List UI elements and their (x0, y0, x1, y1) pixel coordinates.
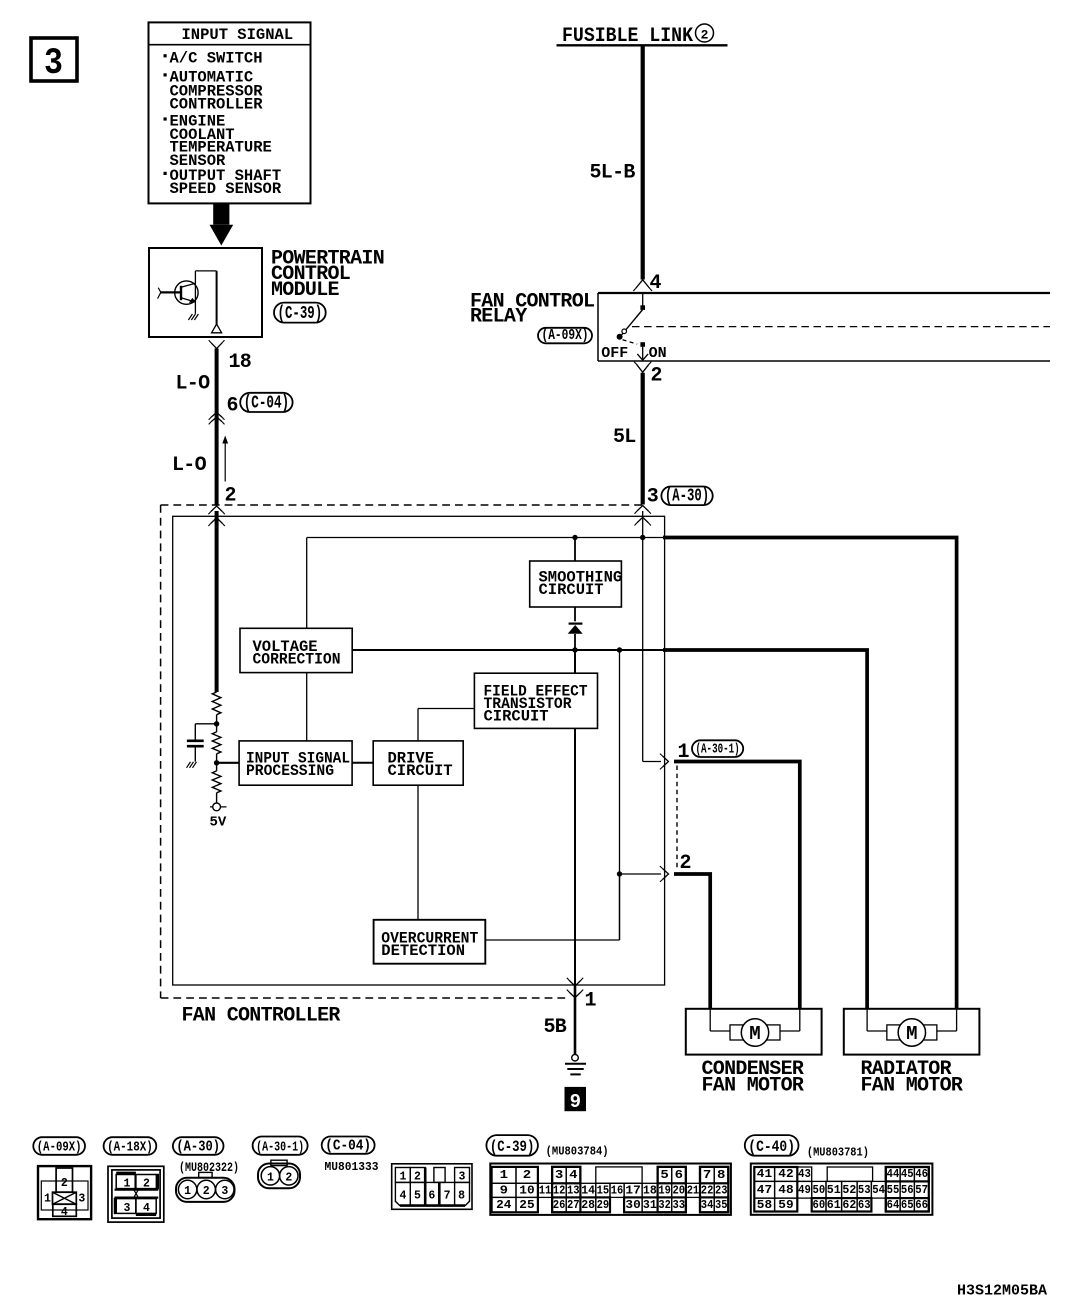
svg-text:4: 4 (399, 1190, 406, 1203)
ground G9 (565, 1054, 586, 1074)
svg-text:(A-30-1): (A-30-1) (696, 742, 740, 758)
svg-text:2: 2 (61, 1177, 68, 1190)
connector A-30-1 face view (253, 1137, 308, 1189)
ground for capacitor (187, 762, 197, 768)
overcurrent detection block (374, 920, 486, 964)
svg-text:INPUT SIGNAL: INPUT SIGNAL (182, 26, 294, 44)
svg-text:45: 45 (901, 1168, 914, 1181)
svg-text:(A-09X): (A-09X) (37, 1139, 82, 1155)
node junction on supply bus (640, 535, 645, 540)
wire L-O from PCM pin 18 (215, 349, 219, 505)
svg-text:55: 55 (887, 1184, 900, 1197)
fan controller dashed enclosure (161, 505, 643, 998)
svg-text:41: 41 (757, 1168, 772, 1181)
svg-text:(C-39): (C-39) (490, 1138, 535, 1156)
svg-text:5V: 5V (210, 815, 227, 831)
fusible link 2 supply (557, 24, 728, 48)
svg-text:5: 5 (660, 1169, 669, 1182)
svg-text:63: 63 (858, 1199, 871, 1212)
svg-text:(A-30): (A-30) (665, 487, 709, 507)
svg-text:58: 58 (757, 1199, 772, 1212)
wire from pin 2 to resistor ladder (215, 511, 219, 692)
fan controller inner box (173, 516, 665, 985)
connector C-04 face view (322, 1137, 472, 1210)
svg-text:35: 35 (715, 1199, 728, 1212)
svg-text:(C-40): (C-40) (748, 1138, 795, 1156)
thick wire pin2 to condenser fan motor left (674, 874, 710, 1009)
svg-text:(MU803784): (MU803784) (546, 1144, 609, 1158)
svg-text:2: 2 (414, 1171, 421, 1184)
svg-text:1: 1 (500, 1169, 509, 1182)
wire bus to FET circuit (574, 650, 576, 673)
thick wire FET bus to radiator fan motor left (663, 650, 867, 1009)
svg-text:OFF: OFF (601, 345, 628, 362)
relay OFF ON labels (601, 345, 666, 362)
svg-text:4: 4 (61, 1206, 68, 1219)
svg-text:3: 3 (647, 486, 658, 509)
svg-text:57: 57 (915, 1184, 928, 1197)
svg-text:1: 1 (123, 1178, 130, 1191)
svg-text:4: 4 (569, 1169, 578, 1182)
svg-text:51: 51 (827, 1184, 841, 1197)
page number 3 box (31, 38, 77, 85)
connector C-40 face view (745, 1135, 933, 1215)
svg-text:3: 3 (221, 1185, 228, 1198)
svg-text:L-O: L-O (176, 373, 211, 396)
svg-text:3: 3 (555, 1169, 564, 1182)
svg-text:M: M (906, 1023, 917, 1045)
svg-text:2: 2 (701, 27, 709, 42)
wire label 5L (613, 426, 636, 449)
svg-text:60: 60 (813, 1199, 826, 1212)
svg-text:CIRCUIT: CIRCUIT (539, 581, 604, 599)
wire label L-O lower (172, 454, 207, 477)
fan controller label (182, 1005, 341, 1028)
svg-text:FAN MOTOR: FAN MOTOR (861, 1074, 963, 1097)
pin 3 with connector A-30 (647, 486, 713, 509)
svg-text:(C-39): (C-39) (278, 304, 323, 324)
connector label A-09X (538, 327, 592, 344)
input signal processing block (239, 741, 352, 785)
svg-text:5L: 5L (613, 426, 636, 449)
connector label C-04 (240, 393, 292, 414)
svg-text:(A-30-1): (A-30-1) (256, 1139, 304, 1155)
wire FET output to pin 1 (574, 728, 576, 985)
connector label A-30-1 (692, 740, 743, 757)
svg-text:11: 11 (539, 1184, 552, 1197)
transistor Q1 in PCM (158, 271, 217, 320)
svg-text:22: 22 (701, 1184, 714, 1197)
svg-text:PROCESSING: PROCESSING (246, 762, 334, 780)
svg-text:L-O: L-O (172, 454, 207, 477)
node junction pin 2 branch (617, 871, 622, 876)
svg-text:13: 13 (567, 1184, 580, 1197)
svg-text:49: 49 (798, 1184, 811, 1197)
pin 4 of fan control relay (633, 272, 661, 295)
ground reference number 9 (565, 1087, 587, 1113)
svg-text:1: 1 (267, 1171, 274, 1184)
svg-text:16: 16 (611, 1184, 624, 1197)
internal bus to voltage correction (307, 538, 665, 629)
wire (216, 793, 218, 803)
svg-text:2: 2 (680, 852, 691, 875)
svg-text:(C-04): (C-04) (325, 1137, 371, 1154)
svg-text:CIRCUIT: CIRCUIT (388, 762, 453, 780)
svg-text:FAN CONTROLLER: FAN CONTROLLER (182, 1005, 341, 1028)
svg-text:4: 4 (143, 1202, 150, 1215)
svg-text:66: 66 (915, 1199, 928, 1212)
svg-text:24: 24 (496, 1199, 511, 1212)
wire voltage correction to input processing (306, 673, 308, 741)
wire drive circuit to overcurrent detection (417, 785, 419, 920)
radiator fan motor (844, 1009, 980, 1098)
svg-text:34: 34 (701, 1199, 714, 1212)
svg-text:6: 6 (428, 1190, 435, 1203)
svg-text:2: 2 (651, 365, 662, 388)
svg-text:M: M (749, 1023, 760, 1045)
node junction overcurrent branch (617, 647, 622, 652)
svg-text:8: 8 (458, 1190, 465, 1203)
thick wire pin1 to condenser fan motor right (674, 762, 800, 1009)
wire label 5L-B (590, 162, 636, 185)
svg-text:21: 21 (687, 1184, 700, 1197)
connector C-39 face view (486, 1135, 731, 1215)
svg-text:33: 33 (673, 1199, 686, 1212)
wire 5L from relay to fan controller (641, 373, 645, 505)
wire smoothing to diode (574, 607, 576, 621)
svg-text:32: 32 (658, 1199, 671, 1212)
wire (216, 754, 218, 771)
svg-text:46: 46 (915, 1168, 928, 1181)
field effect transistor circuit block (474, 673, 597, 728)
current direction arrow (222, 436, 228, 482)
svg-text:19: 19 (658, 1184, 671, 1197)
svg-text:ON: ON (649, 345, 667, 362)
svg-text:52: 52 (842, 1184, 856, 1197)
wire tap to input signal processing (217, 762, 240, 764)
svg-text:SPEED SENSOR: SPEED SENSOR (170, 180, 282, 198)
svg-text:9: 9 (570, 1091, 581, 1113)
node junction smoothing branch (572, 535, 577, 540)
connector C-04 pin 6 in-line crossing (209, 395, 238, 425)
powertrain control module (149, 247, 384, 337)
wire drive circuit to FET circuit (418, 709, 474, 741)
svg-text:8: 8 (717, 1169, 726, 1182)
svg-text:2: 2 (523, 1169, 532, 1182)
svg-text:47: 47 (757, 1184, 772, 1197)
svg-text:3: 3 (459, 1171, 466, 1184)
smoothing circuit block (530, 561, 623, 607)
svg-text:1: 1 (585, 990, 597, 1013)
svg-text:1: 1 (184, 1185, 191, 1198)
svg-text:6: 6 (675, 1169, 684, 1182)
svg-text:3: 3 (123, 1202, 130, 1215)
svg-text:7: 7 (444, 1190, 451, 1203)
svg-text:5L-B: 5L-B (590, 162, 636, 185)
node junction signal tap (214, 760, 219, 765)
svg-text:53: 53 (858, 1184, 871, 1197)
svg-text:(C-04): (C-04) (244, 394, 289, 414)
svg-text:20: 20 (673, 1184, 686, 1197)
resistor R3 (212, 771, 221, 793)
svg-text:1: 1 (399, 1171, 406, 1184)
capacitor C1 (187, 724, 217, 762)
svg-text:48: 48 (778, 1184, 793, 1197)
svg-text:54: 54 (872, 1184, 885, 1197)
svg-text:26: 26 (553, 1199, 566, 1212)
svg-text:5: 5 (414, 1190, 421, 1203)
wire diode to FET bus (574, 634, 576, 650)
svg-text:2: 2 (225, 485, 236, 508)
svg-text:H3S12M05BA: H3S12M05BA (957, 1283, 1047, 1300)
svg-text:6: 6 (227, 395, 238, 418)
relay switch contacts and blade (617, 293, 649, 360)
5V supply terminal (210, 803, 227, 831)
fan control relay A-09X box (470, 290, 1050, 361)
pin 18 of PCM (209, 340, 251, 374)
node junction diode to bus (572, 647, 577, 652)
wire input processing to drive circuit (352, 762, 373, 764)
svg-text:5B: 5B (544, 1016, 567, 1039)
svg-text:MODULE: MODULE (271, 279, 340, 302)
input signal list box (149, 22, 311, 203)
pin 1 controller output crossings (567, 978, 597, 1013)
svg-text:10: 10 (519, 1184, 534, 1197)
wire overcurrent detection to sense node (485, 874, 619, 940)
svg-text:27: 27 (567, 1199, 580, 1212)
svg-text:15: 15 (597, 1184, 610, 1197)
svg-text:30: 30 (625, 1199, 640, 1212)
svg-text:3: 3 (44, 43, 63, 85)
svg-text:17: 17 (625, 1184, 640, 1197)
thick wire supply bus to radiator fan motor right (663, 538, 957, 1009)
svg-text:CORRECTION: CORRECTION (253, 650, 341, 668)
condenser fan motor (686, 1009, 822, 1098)
wire (216, 715, 218, 732)
svg-text:2: 2 (285, 1171, 292, 1184)
svg-text:62: 62 (842, 1199, 856, 1212)
svg-text:61: 61 (827, 1199, 841, 1212)
block arrow from input signal to PCM (210, 203, 234, 245)
svg-text:(A-09X): (A-09X) (542, 327, 589, 344)
wire branch to pin 2 node (619, 650, 621, 940)
svg-text:(A-18X): (A-18X) (107, 1139, 153, 1155)
svg-text:59: 59 (778, 1199, 793, 1212)
pin 1 with connector A-30-1 (643, 741, 690, 769)
svg-text:4: 4 (650, 272, 662, 295)
internal supply wire from pin 3 (642, 511, 644, 762)
resistor R1 (212, 692, 221, 715)
bus from voltage correction to FET output node (352, 649, 664, 651)
svg-text:CIRCUIT: CIRCUIT (484, 707, 549, 725)
svg-text:28: 28 (581, 1199, 595, 1212)
document number (957, 1283, 1047, 1300)
svg-text:2: 2 (203, 1185, 210, 1198)
svg-text:1: 1 (44, 1193, 51, 1206)
svg-text:50: 50 (813, 1184, 826, 1197)
svg-text:25: 25 (519, 1199, 534, 1212)
diode D1 (568, 624, 583, 634)
voltage correction block (240, 628, 352, 672)
svg-text:18: 18 (229, 351, 252, 374)
svg-text:64: 64 (887, 1199, 900, 1212)
wire to smoothing circuit (574, 538, 576, 562)
svg-text:(A-30): (A-30) (176, 1138, 220, 1155)
wire label L-O upper (176, 373, 211, 396)
wire 5B to ground (574, 985, 577, 1055)
connector A-18X face view (104, 1137, 164, 1222)
svg-text:MU801333: MU801333 (325, 1160, 379, 1174)
svg-text:65: 65 (901, 1199, 914, 1212)
pin 2 of fan control relay (634, 362, 662, 388)
connector A-09X face view (33, 1137, 91, 1219)
svg-text:3: 3 (78, 1193, 85, 1206)
pin 2 of A-30-1 (620, 852, 691, 882)
wire 5L-B from fusible link (641, 47, 645, 280)
svg-text:2: 2 (143, 1178, 150, 1191)
svg-text:(MU803781): (MU803781) (807, 1145, 869, 1159)
svg-text:18: 18 (643, 1184, 657, 1197)
svg-text:31: 31 (643, 1199, 657, 1212)
svg-text:44: 44 (887, 1168, 900, 1181)
boundary crossing chevrons on supply wire (635, 506, 651, 526)
svg-text:CONTROLLER: CONTROLLER (170, 96, 264, 114)
connector A-30 face view (173, 1137, 239, 1202)
node junction capacitor tap (214, 721, 219, 726)
boundary crossing chevrons on left wire (208, 506, 224, 526)
svg-text:23: 23 (715, 1184, 728, 1197)
svg-text:A/C SWITCH: A/C SWITCH (170, 50, 263, 68)
PCM output line and terminal triangle (212, 271, 222, 333)
svg-text:42: 42 (778, 1168, 793, 1181)
pin 2 of fan controller (225, 485, 236, 508)
svg-text:FAN MOTOR: FAN MOTOR (702, 1074, 804, 1097)
connector label C-39 (274, 303, 326, 325)
wire label 5B (544, 1016, 567, 1039)
svg-text:9: 9 (500, 1184, 509, 1197)
svg-text:12: 12 (553, 1184, 566, 1197)
svg-text:7: 7 (703, 1169, 712, 1182)
drive circuit block (373, 741, 463, 785)
svg-text:RELAY: RELAY (470, 305, 527, 328)
svg-text:56: 56 (901, 1184, 914, 1197)
svg-text:43: 43 (798, 1168, 811, 1181)
svg-text:29: 29 (597, 1199, 610, 1212)
connector A-30-1 dashed body line (676, 766, 678, 870)
relay actuator dashed linkage (632, 326, 1050, 328)
svg-text:DETECTION: DETECTION (381, 942, 465, 960)
svg-text:14: 14 (581, 1184, 595, 1197)
resistor R2 (212, 732, 221, 754)
